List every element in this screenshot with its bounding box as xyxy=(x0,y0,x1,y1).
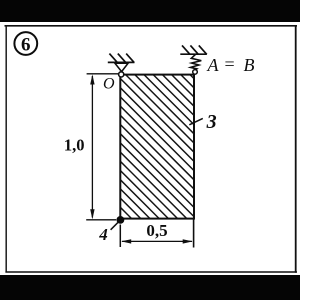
left lower extension line below dot xyxy=(119,225,121,248)
left arrowhead xyxy=(121,239,131,243)
svg-text:O: O xyxy=(103,76,115,93)
bottom extension line xyxy=(86,219,116,221)
vertical dimension line xyxy=(91,76,93,218)
corner node dot 4 xyxy=(117,216,125,224)
plate outline xyxy=(120,75,194,219)
svg-text:B: B xyxy=(244,55,255,75)
circled number 6 badge xyxy=(14,32,37,55)
top arrowhead xyxy=(90,74,94,84)
left ceiling support: hatch strokes xyxy=(109,54,134,63)
svg-text:6: 6 xyxy=(21,34,31,55)
svg-text:=: = xyxy=(225,54,235,74)
label A = B xyxy=(207,54,255,75)
right arrowhead xyxy=(183,239,193,243)
horizontal dimension line xyxy=(122,240,192,242)
svg-text:1,0: 1,0 xyxy=(64,136,85,155)
spring end circle xyxy=(193,70,198,75)
left ceiling support: wall line xyxy=(108,61,135,63)
svg-text:3: 3 xyxy=(206,111,217,133)
pin support triangle xyxy=(115,63,128,71)
bottom black scan band xyxy=(0,275,300,300)
frame right border xyxy=(295,26,297,273)
frame bottom border xyxy=(5,271,297,273)
leader tick to label 3 xyxy=(189,118,203,124)
spring element xyxy=(191,54,202,70)
hatched rectangular plate body xyxy=(120,75,194,219)
pin joint circle O xyxy=(119,72,124,77)
leader line to label 4 xyxy=(111,222,119,230)
svg-text:4: 4 xyxy=(98,225,108,244)
top black scan band xyxy=(0,0,300,22)
right lower extension line xyxy=(193,220,195,248)
bottom arrowhead xyxy=(90,209,94,219)
svg-text:0,5: 0,5 xyxy=(146,221,167,240)
frame top border xyxy=(5,25,298,27)
right ceiling support: hatch strokes xyxy=(182,45,207,54)
svg-text:A: A xyxy=(207,55,220,75)
top extension line xyxy=(87,73,119,75)
right ceiling support: wall line xyxy=(180,53,207,55)
frame left border xyxy=(5,26,7,273)
